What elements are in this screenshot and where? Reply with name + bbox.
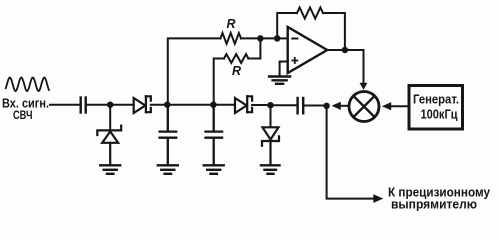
capacitor C4 xyxy=(298,98,304,113)
op-amp plus sign xyxy=(292,58,297,63)
wire node G down to output arrow xyxy=(327,106,373,199)
wire node C to node D xyxy=(260,37,275,39)
resistor R lower xyxy=(224,54,248,63)
svg-text:R: R xyxy=(227,17,236,31)
wire R upper to node C xyxy=(241,37,258,39)
diode VD2 xyxy=(134,96,151,113)
node H junction xyxy=(342,47,349,54)
feedback wire down to output node H xyxy=(323,13,345,48)
op-amp output wire xyxy=(327,49,363,51)
node B junction xyxy=(164,101,171,108)
svg-text:Генерат.: Генерат. xyxy=(413,93,459,107)
node F junction xyxy=(267,102,274,109)
wire node E up and right to resistor R (lower) xyxy=(214,59,224,105)
generator box G1 xyxy=(409,86,463,130)
resistor R upper xyxy=(221,33,242,44)
wire node B to node E xyxy=(170,104,212,106)
ground for op-amp input xyxy=(269,77,290,84)
label R upper xyxy=(227,17,236,31)
wire input to C1 xyxy=(50,104,80,106)
svg-text:100кГц: 100кГц xyxy=(421,108,458,122)
label output text xyxy=(388,185,491,212)
mixer M1 circle xyxy=(349,92,379,122)
svg-text:R: R xyxy=(232,64,241,78)
ground for C2 xyxy=(158,165,178,174)
capacitor C1 xyxy=(81,98,86,113)
label R lower xyxy=(232,64,241,78)
wire C1 to node A xyxy=(87,104,108,106)
mixer output arrow into node G xyxy=(340,105,349,107)
capacitor C2 xyxy=(160,105,177,165)
node D junction (inverting input) xyxy=(274,35,281,42)
capacitor C3 xyxy=(206,105,223,165)
node A junction xyxy=(107,101,114,108)
op-amp minus sign xyxy=(292,38,297,40)
wire node A to diode VD2 xyxy=(112,104,134,106)
generator text xyxy=(413,93,459,122)
wire node F down to zener VD4 xyxy=(270,105,272,127)
node C junction xyxy=(257,35,264,42)
zener diode VD1 xyxy=(97,126,121,165)
wire generator to mixer arrow xyxy=(391,105,408,107)
wire node E to diode VD3 xyxy=(216,104,236,106)
feedback wire up from node D xyxy=(277,13,297,38)
svg-text:выпрямителю: выпрямителю xyxy=(391,197,477,212)
mixer X diagonals xyxy=(354,96,374,116)
op-amp U1 triangle xyxy=(288,27,328,73)
svg-text:СВЧ: СВЧ xyxy=(13,108,33,122)
ground for VD4 xyxy=(261,165,280,174)
label input text xyxy=(2,97,49,122)
zener diode VD4 xyxy=(262,127,279,164)
wire node A down to zener VD1 xyxy=(109,105,111,131)
ground for VD1 xyxy=(100,165,120,174)
feedback resistor xyxy=(297,8,323,19)
wire R lower up to node C xyxy=(248,40,260,59)
input sine symbol xyxy=(6,78,49,92)
op-amp non-inverting input wire to ground xyxy=(280,62,288,76)
ground for C3 xyxy=(204,165,224,174)
wire output down to mixer xyxy=(363,50,365,83)
wire node D to op-amp inverting input xyxy=(277,37,287,39)
wire C4 to node G xyxy=(304,105,324,107)
arrow into mixer right xyxy=(382,102,391,110)
node G junction xyxy=(323,103,329,109)
wire VD2 to node B xyxy=(151,104,165,106)
arrow into mixer top xyxy=(360,83,368,90)
output arrow to rectifier xyxy=(373,194,383,203)
wire node F to C4 xyxy=(273,104,297,106)
wire node B up and right to resistor R (upper) xyxy=(168,38,221,104)
node E junction xyxy=(210,101,217,108)
wire VD3 to node F xyxy=(252,104,268,106)
diode VD3 xyxy=(235,96,252,113)
